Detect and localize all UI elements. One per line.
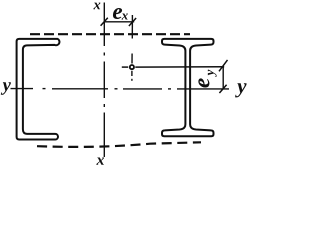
label y (left axis) <box>1 82 11 94</box>
label x (top axis) <box>93 3 100 10</box>
ey dimension line <box>222 67 224 89</box>
ey slash terminator bottom <box>219 85 226 93</box>
channel section C1 (left chord, opening right) <box>17 39 60 140</box>
ex slash terminator right <box>129 18 136 26</box>
top batten plate (dashed line) <box>30 33 190 35</box>
bottom batten plate (dashed line) <box>37 142 201 147</box>
centroid vertical line (through point C) <box>131 15 134 81</box>
ey slash terminator top <box>219 60 228 71</box>
label x (bottom axis) <box>96 157 104 164</box>
ex slash terminator left <box>101 18 108 26</box>
ex dimension line <box>104 21 134 23</box>
centroid crosshair left dash <box>122 66 128 68</box>
centroid horizontal line to ey dimension <box>135 66 224 68</box>
I-beam section I1 (right chord) <box>162 39 214 136</box>
label y (right axis) <box>235 83 246 97</box>
centroid marker (small circle) <box>130 65 134 69</box>
y axis (horizontal dash-dot line) <box>11 88 230 90</box>
label e_y (rotated) <box>198 70 216 88</box>
x axis (vertical dash-dot line) <box>103 3 105 158</box>
label e_x <box>113 8 122 19</box>
